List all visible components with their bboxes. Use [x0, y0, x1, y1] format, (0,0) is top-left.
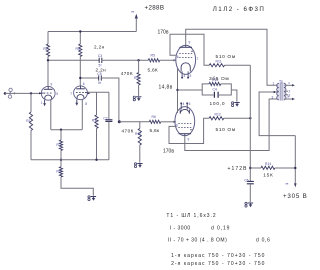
ground screen filter [245, 202, 253, 207]
cathode network box wires [202, 84, 237, 102]
wire lower grid wire [119, 121, 149, 123]
wire input to T1 grid [5, 92, 41, 94]
resistor R3 grid V1b [92, 115, 98, 128]
wire coupling upper right [102, 59, 149, 61]
svg-text:1: 1 [273, 82, 275, 86]
svg-text:6: 6 [83, 82, 85, 86]
wire 470K lower top [139, 122, 141, 129]
junction CT pin [273, 91, 275, 93]
svg-text:470К: 470К [121, 71, 133, 76]
svg-text:Тр: Тр [279, 79, 283, 83]
pentode tube V2 upper [176, 45, 196, 78]
wire Cg bottom [108, 122, 110, 160]
svg-text:пв: пв [285, 182, 289, 186]
svg-text:d 0,19: d 0,19 [211, 225, 230, 231]
svg-text:+288В: +288В [145, 5, 165, 12]
svg-text:2,2н: 2,2н [96, 67, 107, 72]
wire tail to R7 [60, 130, 62, 140]
wire to lower pentode grid [161, 121, 176, 123]
wire 470K upper bottom [138, 85, 140, 96]
wire R8 to ground [61, 177, 93, 196]
svg-text:R5: R5 [151, 54, 155, 58]
wire Cg top [108, 92, 110, 119]
resistor R1 grid leak [26, 112, 32, 131]
wire screen upper to bus [225, 64, 251, 66]
pin stub T1 [43, 100, 46, 106]
wire T1 cathode [50, 100, 52, 130]
svg-text:1: 1 [41, 101, 43, 105]
svg-text:2-я каркас 750 - 70+30 - 750: 2-я каркас 750 - 70+30 - 750 [171, 261, 265, 267]
wire to upper pentode grid [160, 59, 176, 61]
svg-text:R3: R3 [92, 119, 96, 123]
svg-text:6: 6 [177, 55, 179, 59]
svg-text:5: 5 [190, 74, 192, 78]
svg-text:9: 9 [188, 138, 190, 142]
wire bottom node bus [31, 159, 109, 161]
tick T2 grid exit [88, 92, 91, 94]
power arrow +305V [285, 182, 296, 188]
wire 15K left [250, 167, 261, 169]
svg-text:4: 4 [288, 81, 290, 85]
triode tube V1a [41, 86, 55, 100]
capacitor C2 grid decouple [103, 117, 112, 122]
wire cathode to RC [178, 89, 203, 91]
svg-text:510 Ом: 510 Ом [216, 54, 236, 60]
svg-text:R11: R11 [216, 59, 222, 63]
wire upper plate to transformer [186, 29, 278, 85]
wire Rg top [96, 92, 98, 115]
svg-text:R7: R7 [56, 143, 60, 147]
resistor R9 grid leak upper [134, 73, 140, 86]
wire R1 bottom [30, 131, 32, 160]
svg-text:+172В: +172В [228, 166, 248, 172]
junction +172 node [249, 167, 251, 169]
wire screen bus to ground [249, 184, 251, 202]
input jack symbol [8, 88, 15, 98]
wire screen loop lower [169, 118, 209, 143]
capacitor C5 coupling lower [97, 72, 101, 85]
wire secondary top [285, 84, 293, 86]
triode tube V1b [74, 86, 88, 100]
junction cathode tail [60, 129, 62, 131]
wire coupling upper left [48, 59, 99, 61]
tick upper pentode grid entry [173, 59, 176, 61]
svg-text:R8: R8 [56, 170, 60, 174]
svg-text:С6: С6 [244, 179, 248, 183]
ground cathode network [232, 102, 240, 107]
svg-text:4: 4 [183, 102, 185, 106]
svg-text:9: 9 [189, 41, 191, 45]
resistor R8 tail lower [56, 167, 62, 177]
capacitor C6 screen filter [244, 179, 254, 184]
wire 15K right [275, 167, 295, 169]
wire R1 top [30, 93, 32, 112]
wire coupling lower route [101, 78, 119, 122]
wire secondary tap upper [285, 90, 289, 92]
wire Rg bottom [96, 128, 98, 160]
wire 470K lower bottom [139, 145, 141, 163]
power arrow +288V [131, 10, 138, 19]
wire +288V top rail [48, 31, 136, 33]
svg-text:1-я каркас 750 - 70+30 - 750: 1-я каркас 750 - 70+30 - 750 [171, 253, 265, 259]
wire lower plate to transformer [185, 99, 278, 151]
svg-text:470К: 470К [122, 129, 134, 134]
junction upper grid node [137, 59, 139, 61]
wire secondary tap lower [285, 94, 289, 96]
terminal arrow secondary top [288, 81, 295, 87]
wire T2 cathode [81, 100, 83, 130]
transformer T1 body [277, 79, 286, 100]
wire T2 plate to tube [79, 57, 81, 87]
svg-text:I - 3000: I - 3000 [170, 225, 191, 231]
capacitor C4 cathode bypass [213, 88, 219, 98]
svg-text:R10: R10 [135, 132, 141, 136]
terminal arrow secondary bottom [288, 95, 295, 101]
wire T2 grid right [87, 91, 109, 93]
svg-text:R4: R4 [76, 47, 80, 51]
junction T1 plate tee [47, 59, 49, 61]
wire screen lower to bus [224, 117, 251, 119]
resistor R12 screen lower [209, 112, 224, 120]
svg-text:8: 8 [85, 102, 87, 106]
wire pentode cathode link [177, 68, 179, 113]
svg-text:R1: R1 [26, 119, 30, 123]
svg-text:15К: 15К [263, 173, 273, 179]
svg-text:3: 3 [272, 95, 274, 99]
pentode tube V3 lower [175, 102, 195, 135]
svg-text:Т1 - ШЛ 1,6х3.2: Т1 - ШЛ 1,6х3.2 [166, 213, 216, 219]
wire T1 plate to tube [47, 57, 49, 87]
junction rail-T2 [79, 30, 81, 32]
resistor R13 cathode 365 Ohm [209, 78, 221, 86]
resistor R10 grid leak lower [135, 129, 141, 146]
svg-text:7: 7 [70, 92, 72, 96]
resistor R2 plate load T1 [43, 44, 49, 57]
junction input/R1 [30, 92, 32, 94]
wire screen loop upper [170, 34, 209, 65]
svg-text:R2: R2 [43, 47, 47, 51]
svg-text:R14: R14 [265, 162, 271, 166]
wire screen bus vertical [249, 65, 251, 181]
svg-text:С2: С2 [103, 117, 107, 121]
svg-text:С4: С4 [213, 88, 217, 92]
svg-text:5: 5 [189, 102, 191, 106]
resistor R4 plate load T2 [76, 44, 82, 57]
svg-text:5т: 5т [98, 81, 102, 85]
junction screen bus lower [249, 117, 251, 119]
junction cathode bus [176, 89, 178, 91]
wire cathode join [51, 129, 83, 131]
resistor R7 tail [56, 140, 62, 151]
junction T2 plate tee [79, 77, 81, 79]
svg-text:7: 7 [197, 57, 199, 61]
wire coupling lower left [80, 77, 99, 79]
resistor R5 grid stopper upper [148, 54, 159, 62]
svg-text:II - 70 + 30 (4 . 8 ОМ): II - 70 + 30 (4 . 8 ОМ) [168, 237, 227, 243]
wire supply riser +288V [135, 16, 137, 32]
svg-text:5,6К: 5,6К [148, 68, 158, 74]
ground tail [88, 196, 96, 201]
svg-text:С3: С3 [98, 54, 102, 58]
svg-text:d 0,6: d 0,6 [256, 237, 271, 243]
svg-text:170в: 170в [158, 29, 169, 35]
svg-text:510 Ом: 510 Ом [216, 127, 236, 133]
svg-text:170в: 170в [163, 149, 174, 155]
junction lower grid node [118, 120, 121, 123]
wire R7-R8 node [60, 151, 62, 167]
svg-text:5: 5 [56, 92, 58, 96]
tick lower pentode grid entry [173, 121, 176, 123]
resistor R14 15K [261, 162, 275, 170]
svg-text:100,0: 100,0 [210, 101, 226, 107]
svg-text:Л1Л2 - 6Ф3П: Л1Л2 - 6Ф3П [213, 6, 265, 13]
ground upper grid [133, 96, 141, 101]
svg-text:пв: пв [131, 10, 135, 14]
wire T2 plate column [79, 32, 81, 45]
junction Rg/bus [95, 159, 97, 161]
svg-text:R12: R12 [215, 112, 221, 116]
wire secondary bottom [285, 98, 293, 100]
svg-text:9: 9 [51, 83, 53, 87]
wire +305 riser [294, 136, 296, 184]
wire 470K upper top [138, 60, 140, 72]
ground lower grid [134, 163, 142, 168]
svg-text:4: 4 [184, 74, 186, 78]
capacitor C3 coupling upper [98, 54, 102, 67]
svg-text:3б5 Ом: 3б5 Ом [209, 76, 229, 82]
svg-text:R6: R6 [152, 115, 156, 119]
junction node R7R8 [60, 159, 62, 161]
resistor R6 grid stopper lower [149, 115, 160, 123]
resistor R11 screen upper [209, 59, 224, 67]
svg-text:14,8в: 14,8в [159, 85, 173, 91]
svg-text:5,6к: 5,6к [150, 128, 160, 134]
svg-text:С5: С5 [97, 72, 101, 76]
tick T1 grid entry [39, 92, 42, 94]
junction 15K/+305 riser [294, 167, 296, 169]
svg-text:+305 В: +305 В [283, 193, 308, 200]
wire T1 plate column [47, 32, 49, 45]
svg-text:2,2н: 2,2н [94, 45, 105, 50]
input terminal dot [4, 92, 7, 95]
svg-text:R9: R9 [134, 76, 138, 80]
pin stub T2 [75, 100, 78, 106]
wire center tap route [259, 92, 295, 136]
